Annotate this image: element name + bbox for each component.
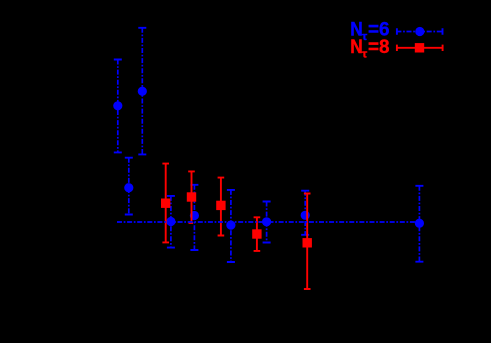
blue series N_tau=6 : error bar 9 [415, 186, 423, 262]
blue series N_tau=6 : error bar 1 [114, 60, 122, 153]
horizontal unity line [117, 221, 423, 223]
red point 3 [216, 201, 225, 210]
red series N_tau=8 : error bar 3 [218, 178, 225, 236]
red series N_tau=8 : error bar 5 [304, 194, 311, 290]
blue point 6 [226, 221, 235, 230]
red point 1 [161, 199, 170, 208]
blue point 5 [190, 211, 199, 220]
legend label N_tau=6 [350, 19, 389, 43]
blue series N_tau=6 : error bar 3 [125, 158, 133, 215]
legend marker square N_tau=8 [415, 43, 424, 52]
legend sample line N_tau=6 [396, 28, 443, 34]
red series N_tau=8 : error bar 1 [162, 164, 169, 243]
legend label N_tau=8 [350, 37, 389, 61]
red series N_tau=8 : error bar 2 [188, 171, 195, 223]
blue series N_tau=6 : error bar 8 [301, 191, 309, 235]
blue point 1 [113, 101, 122, 110]
svg-text:τ: τ [362, 49, 368, 61]
blue series N_tau=6 : error bar 5 [190, 185, 198, 250]
red point 5 [303, 238, 312, 247]
blue point 9 [415, 219, 424, 228]
svg-text:=8: =8 [368, 37, 390, 58]
blue point 2 [138, 87, 147, 96]
blue point 4 [166, 217, 175, 226]
blue point 7 [262, 217, 271, 226]
blue series N_tau=6 : error bar 4 [167, 196, 175, 248]
red series N_tau=8 : error bar 4 [254, 217, 261, 251]
red point 2 [187, 192, 196, 201]
red point 4 [252, 229, 261, 238]
blue series N_tau=6 : error bar 6 [227, 190, 235, 262]
blue series N_tau=6 : error bar 7 [263, 202, 271, 243]
blue point 8 [301, 211, 310, 220]
legend sample line N_tau=8 [396, 45, 443, 51]
blue series N_tau=6 : error bar 2 [138, 28, 146, 155]
blue point 3 [124, 183, 133, 192]
legend marker circle N_tau=6 [415, 27, 424, 36]
